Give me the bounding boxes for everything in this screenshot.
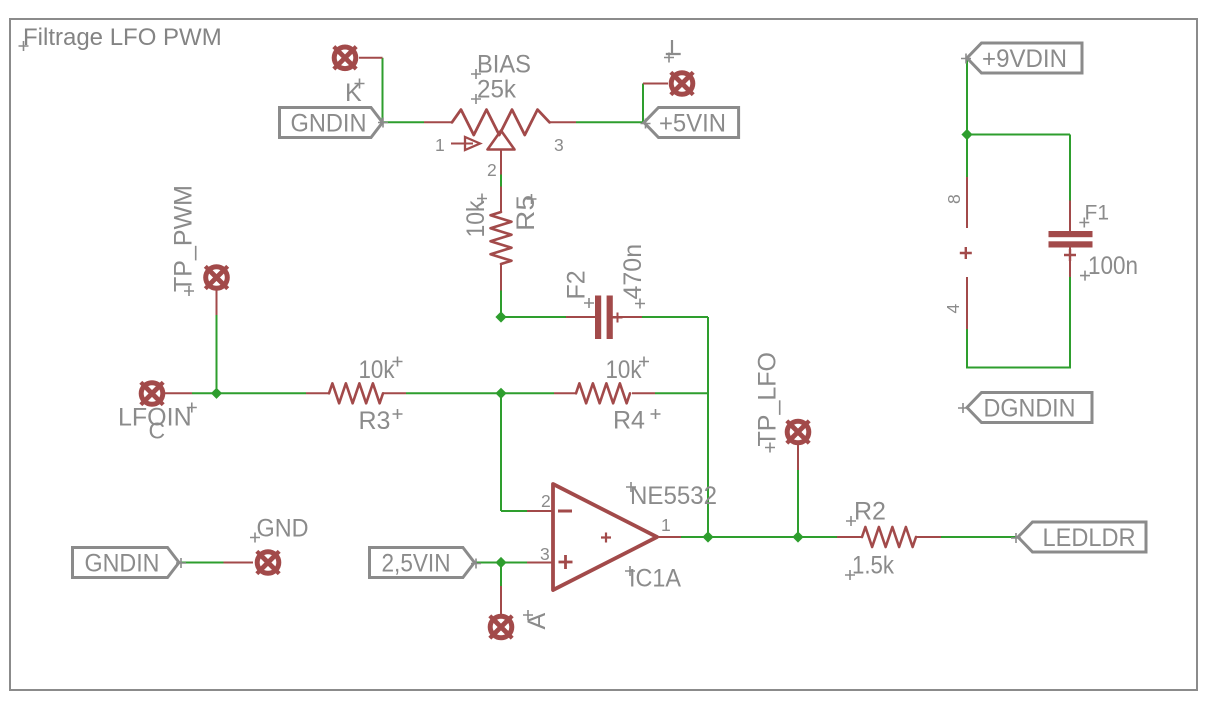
svg-text:100n: 100n bbox=[1088, 252, 1138, 280]
svg-text:1: 1 bbox=[661, 515, 671, 535]
svg-text:DGNDIN: DGNDIN bbox=[984, 394, 1076, 422]
svg-text:F1: F1 bbox=[1085, 202, 1110, 225]
svg-text:GND: GND bbox=[257, 515, 309, 543]
svg-text:BIAS: BIAS bbox=[477, 51, 531, 79]
svg-text:1.5k: 1.5k bbox=[852, 552, 894, 580]
svg-text:GNDIN: GNDIN bbox=[291, 110, 367, 138]
svg-text:2: 2 bbox=[541, 491, 551, 511]
svg-text:25k: 25k bbox=[477, 76, 516, 104]
svg-text:IC1A: IC1A bbox=[629, 565, 681, 593]
svg-text:F2: F2 bbox=[563, 270, 591, 299]
svg-text:+5VIN: +5VIN bbox=[659, 109, 726, 137]
svg-text:Filtrage LFO PWM: Filtrage LFO PWM bbox=[23, 24, 222, 51]
svg-text:10k: 10k bbox=[359, 356, 395, 384]
svg-text:2: 2 bbox=[487, 160, 497, 180]
svg-text:NE5532: NE5532 bbox=[630, 482, 717, 510]
svg-text:10k: 10k bbox=[606, 356, 642, 384]
svg-text:R4: R4 bbox=[613, 407, 645, 435]
svg-text:GNDIN: GNDIN bbox=[85, 550, 160, 578]
svg-text:3: 3 bbox=[540, 544, 550, 564]
svg-text:R2: R2 bbox=[854, 498, 886, 526]
svg-text:2,5VIN: 2,5VIN bbox=[382, 550, 451, 578]
svg-text:10k: 10k bbox=[462, 200, 490, 237]
svg-text:3: 3 bbox=[554, 135, 564, 155]
svg-text:+9VDIN: +9VDIN bbox=[982, 45, 1067, 73]
svg-text:4: 4 bbox=[943, 304, 963, 314]
svg-text:R5: R5 bbox=[512, 195, 540, 231]
svg-text:470n: 470n bbox=[619, 244, 647, 300]
svg-text:TP_PWM: TP_PWM bbox=[170, 185, 198, 292]
svg-text:R3: R3 bbox=[359, 407, 391, 435]
svg-text:LEDLDR: LEDLDR bbox=[1043, 524, 1136, 552]
svg-text:TP_LFO: TP_LFO bbox=[754, 352, 782, 446]
svg-text:C: C bbox=[149, 418, 166, 444]
svg-text:1: 1 bbox=[435, 135, 445, 155]
svg-text:8: 8 bbox=[944, 194, 964, 204]
